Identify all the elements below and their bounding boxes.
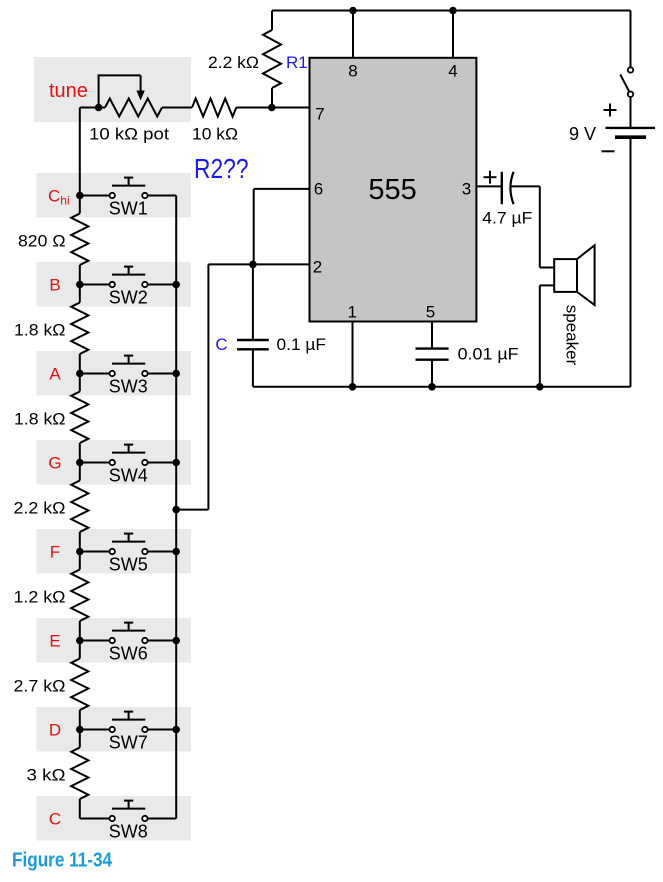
svg-text:2: 2	[313, 258, 322, 277]
svg-text:5: 5	[426, 303, 435, 322]
svg-text:1.8 kΩ: 1.8 kΩ	[14, 321, 66, 340]
svg-text:tune: tune	[49, 80, 88, 102]
svg-text:SW7: SW7	[109, 733, 148, 753]
svg-text:1: 1	[347, 303, 356, 322]
svg-text:555: 555	[368, 174, 416, 206]
svg-text:2.2 kΩ: 2.2 kΩ	[14, 499, 66, 518]
svg-text:0.1 µF: 0.1 µF	[277, 335, 327, 354]
svg-text:7: 7	[315, 105, 324, 124]
svg-text:C: C	[215, 335, 227, 354]
svg-text:8: 8	[348, 61, 357, 80]
svg-text:SW5: SW5	[109, 555, 148, 575]
svg-text:SW6: SW6	[109, 644, 148, 664]
svg-text:B: B	[49, 276, 60, 295]
svg-text:1.2 kΩ: 1.2 kΩ	[14, 588, 66, 607]
svg-text:1.8 kΩ: 1.8 kΩ	[14, 410, 66, 429]
svg-text:SW3: SW3	[109, 377, 148, 397]
svg-text:3 kΩ: 3 kΩ	[27, 766, 66, 785]
svg-text:G: G	[48, 454, 61, 473]
svg-text:2.2 kΩ: 2.2 kΩ	[208, 53, 259, 72]
svg-text:SW4: SW4	[109, 466, 148, 486]
svg-text:E: E	[49, 632, 60, 651]
svg-text:820 Ω: 820 Ω	[18, 232, 66, 251]
svg-text:speaker: speaker	[563, 305, 582, 366]
svg-text:9 V: 9 V	[569, 124, 596, 144]
svg-text:10 kΩ pot: 10 kΩ pot	[89, 125, 169, 144]
svg-text:F: F	[50, 543, 60, 562]
svg-text:2.7 kΩ: 2.7 kΩ	[14, 677, 66, 696]
svg-text:4: 4	[448, 61, 457, 80]
svg-text:R1: R1	[286, 53, 308, 72]
svg-text:A: A	[49, 365, 61, 384]
svg-text:4.7 µF: 4.7 µF	[482, 209, 532, 228]
svg-text:D: D	[49, 721, 61, 740]
svg-text:R2??: R2??	[194, 153, 249, 184]
svg-text:10 kΩ: 10 kΩ	[192, 125, 238, 144]
svg-text:0.01 µF: 0.01 µF	[458, 345, 519, 364]
svg-text:SW8: SW8	[109, 822, 148, 842]
svg-text:SW2: SW2	[109, 288, 148, 308]
svg-text:6: 6	[314, 180, 323, 199]
svg-text:Figure 11-34: Figure 11-34	[12, 849, 113, 871]
svg-text:3: 3	[462, 180, 471, 199]
svg-text:SW1: SW1	[109, 199, 148, 219]
svg-text:C: C	[49, 810, 61, 829]
